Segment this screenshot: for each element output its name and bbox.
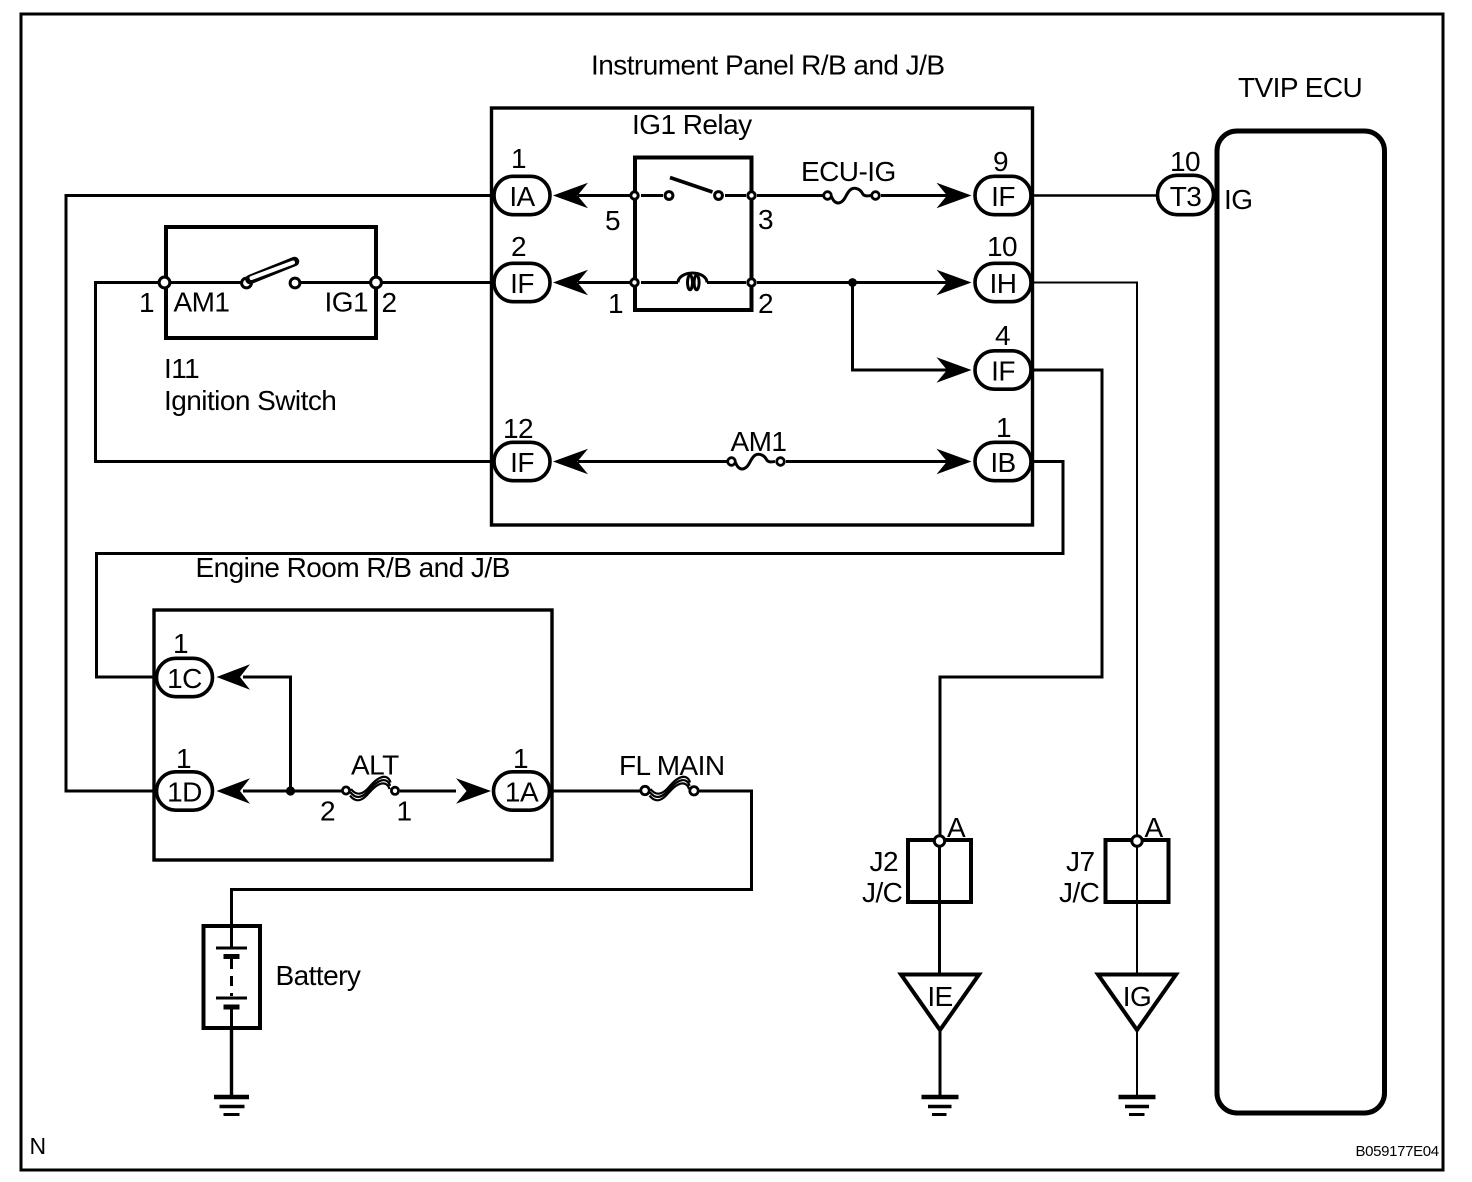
wire ALT fuse to 1A arrow: [400, 790, 456, 793]
svg-text:T3: T3: [1170, 181, 1202, 212]
svg-text:IG: IG: [1224, 184, 1252, 215]
ALT fuse terminal 2: [342, 787, 349, 794]
arrow into 1A: [456, 778, 491, 803]
wire IF12 arrow to AM1 fuse: [578, 460, 727, 463]
svg-text:J7: J7: [1066, 846, 1094, 877]
svg-text:2: 2: [320, 796, 335, 827]
battery plate short thick bottom: [224, 1005, 240, 1010]
Instrument Panel R/B and J/B box: [492, 108, 1033, 525]
svg-text:1C: 1C: [167, 663, 202, 694]
ignition switch contact a: [242, 278, 252, 288]
svg-text:ECU-IG: ECU-IG: [801, 156, 896, 187]
svg-text:1: 1: [513, 743, 528, 774]
wire relay pin5 to contact: [641, 194, 663, 197]
ignition switch terminal 2: [371, 277, 382, 288]
arrow into IF9: [937, 183, 972, 208]
connector 1A: [494, 772, 550, 810]
relay coil: [678, 273, 707, 290]
connector IF pin4: [975, 351, 1031, 389]
FL MAIN fuse left terminal: [641, 786, 649, 794]
junction connector J2 J/C box: [908, 840, 971, 902]
ignition switch terminal 1: [159, 277, 170, 288]
svg-text:1: 1: [173, 628, 188, 659]
svg-text:5: 5: [605, 205, 620, 236]
wire IF4 to J2: [940, 370, 1102, 835]
relay switch contact right: [715, 192, 723, 200]
svg-text:J/C: J/C: [1059, 877, 1100, 908]
ground point triangle IG: [1098, 975, 1176, 1031]
svg-text:AM1: AM1: [731, 426, 787, 457]
junction connector J7 J/C box: [1106, 840, 1169, 902]
relay switch lever: [670, 178, 713, 193]
svg-text:ALT: ALT: [351, 750, 399, 781]
fusible link FL MAIN: [650, 777, 691, 801]
svg-text:Engine Room R/B and J/B: Engine Room R/B and J/B: [196, 552, 510, 583]
svg-text:1: 1: [511, 143, 526, 174]
TVIP ECU box: [1217, 131, 1385, 1113]
wire ignition switch terminal 2 to IF connector: [383, 281, 493, 284]
wire 1C arrow to ALT junction: [243, 677, 291, 791]
wire IB to 1C: [97, 462, 1064, 678]
svg-text:B059177E04: B059177E04: [1356, 1143, 1439, 1160]
svg-text:Battery: Battery: [276, 960, 361, 991]
wire IE triangle to ground: [939, 1030, 942, 1097]
connector IF pin2: [494, 263, 550, 301]
wire junction to IF4: [853, 283, 950, 371]
svg-text:2: 2: [382, 287, 397, 318]
svg-text:IA: IA: [509, 181, 535, 212]
svg-text:I11: I11: [164, 353, 199, 384]
svg-text:IG1 Relay: IG1 Relay: [632, 109, 752, 140]
arrow into 1D: [217, 778, 251, 803]
svg-text:1: 1: [608, 288, 623, 319]
svg-text:1: 1: [176, 743, 191, 774]
connector IB: [975, 442, 1031, 480]
wire ignition terminal 1 to contact: [171, 281, 241, 284]
wire J7 to IG triangle: [1136, 848, 1138, 976]
battery dashed separator: [230, 959, 233, 996]
svg-text:IE: IE: [927, 981, 952, 1012]
wire J2 to IE triangle: [938, 848, 941, 976]
svg-text:IB: IB: [990, 447, 1015, 478]
svg-text:IH: IH: [990, 268, 1017, 299]
svg-text:10: 10: [987, 231, 1017, 262]
battery bottom stem: [230, 1007, 233, 1026]
arrow into IB: [937, 449, 972, 474]
svg-text:FL MAIN: FL MAIN: [619, 750, 725, 781]
arrow into IF4: [937, 357, 972, 382]
ground IE: [922, 1097, 959, 1115]
pin A circle J2: [934, 836, 944, 846]
svg-text:2: 2: [758, 288, 773, 319]
wire battery to ground: [230, 1028, 233, 1097]
svg-text:1: 1: [397, 796, 412, 827]
svg-text:Ignition Switch: Ignition Switch: [164, 385, 336, 416]
wire ignition contact to terminal 2: [301, 281, 370, 284]
wire coil to relay pin2: [707, 281, 746, 284]
wire IG triangle to ground: [1136, 1030, 1138, 1097]
battery plate long top: [216, 947, 247, 950]
pin A circle J7: [1132, 836, 1142, 846]
wire IF9 to T3: [1033, 194, 1157, 197]
svg-text:AM1: AM1: [174, 287, 230, 318]
relay switch contact left: [665, 192, 673, 200]
svg-text:9: 9: [993, 146, 1008, 177]
battery plate short thick top: [224, 954, 240, 959]
connector 1C: [157, 658, 213, 696]
arrow into IH: [937, 270, 972, 295]
fuse AM1: [728, 454, 785, 469]
wire battery feed to IA and 1D: [66, 196, 493, 792]
arrow into IF pin12: [553, 449, 588, 474]
svg-text:2: 2: [511, 231, 526, 262]
relay pin 2 terminal: [748, 279, 755, 286]
relay pin 5 terminal: [631, 192, 638, 199]
IG1 relay box: [635, 158, 752, 311]
battery top stem: [230, 928, 233, 948]
wire IH to J7 vertical: [1033, 283, 1138, 836]
svg-text:TVIP ECU: TVIP ECU: [1238, 72, 1362, 103]
wire ECU-IG fuse to IF9 arrow: [881, 194, 949, 197]
svg-text:1: 1: [139, 287, 154, 318]
junction dot node: [848, 278, 857, 287]
svg-text:1D: 1D: [167, 777, 202, 808]
FL MAIN fuse right terminal: [690, 787, 698, 795]
svg-text:IF: IF: [991, 356, 1015, 387]
svg-text:IF: IF: [510, 447, 534, 478]
fuse ECU-IG: [824, 188, 880, 203]
wire 1D arrow to ALT fuse: [243, 790, 344, 793]
connector IF pin12: [494, 442, 550, 480]
Engine Room R/B and J/B box: [154, 610, 552, 860]
ignition switch contact b: [290, 278, 300, 288]
wire relay contact to pin3: [725, 194, 746, 197]
svg-text:IG1: IG1: [325, 287, 368, 318]
connector IH: [975, 263, 1031, 301]
arrow into IA: [553, 183, 588, 208]
svg-text:J/C: J/C: [862, 877, 903, 908]
battery plate long bottom: [216, 997, 247, 1000]
svg-text:4: 4: [995, 320, 1010, 351]
arrow into IF pin2: [553, 270, 588, 295]
relay pin 1 terminal: [631, 279, 638, 286]
svg-text:J2: J2: [870, 846, 898, 877]
battery box: [204, 926, 261, 1028]
connector IF pin9: [975, 176, 1031, 214]
svg-text:Instrument Panel R/B and J/B: Instrument Panel R/B and J/B: [591, 50, 944, 81]
wire IA arrow to relay pin 5: [578, 194, 630, 197]
svg-text:1A: 1A: [505, 777, 539, 808]
svg-text:12: 12: [503, 413, 533, 444]
svg-text:IG: IG: [1123, 981, 1151, 1012]
relay pin 3 terminal: [748, 192, 755, 199]
ground point triangle IE: [901, 975, 979, 1031]
ground IG: [1119, 1097, 1156, 1115]
ALT fuse terminal 1: [391, 787, 398, 794]
svg-text:10: 10: [1170, 146, 1200, 177]
wire ignition AM1 to IF12: [96, 283, 493, 462]
wire relay pin2 to IH arrow: [757, 281, 949, 284]
ignition switch I11 box: [166, 227, 376, 338]
arrow into 1C: [217, 664, 251, 689]
svg-text:IF: IF: [510, 268, 534, 299]
connector IA: [494, 176, 550, 214]
ground battery: [214, 1097, 249, 1115]
fusible link ALT: [350, 777, 391, 801]
svg-text:IF: IF: [991, 181, 1015, 212]
wire AM1 fuse to IB arrow: [786, 460, 949, 463]
svg-text:N: N: [30, 1133, 47, 1159]
ignition switch lever: [250, 262, 295, 280]
junction dot ALT: [286, 786, 295, 795]
connector 1D: [157, 772, 213, 810]
wire FL MAIN to battery: [232, 791, 752, 926]
wire 1A to FL MAIN: [552, 790, 641, 793]
svg-text:1: 1: [996, 412, 1011, 443]
svg-text:3: 3: [758, 204, 773, 235]
wire relay pin3 to ECU-IG fuse: [757, 194, 823, 197]
wire relay pin1 to coil: [641, 281, 678, 284]
connector T3: [1158, 175, 1214, 214]
wire IF2 arrow to relay pin 1: [578, 281, 630, 284]
